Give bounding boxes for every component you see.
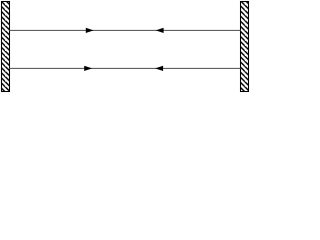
bottom line left-pointing arrow: [155, 66, 163, 71]
left wall: [2, 2, 10, 92]
top line right-pointing arrow: [86, 28, 94, 33]
top line: [10, 29, 241, 31]
right wall: [241, 2, 249, 92]
top line left-pointing arrow: [156, 28, 164, 33]
bottom line: [10, 67, 241, 69]
bottom line right-pointing arrow: [84, 66, 92, 71]
